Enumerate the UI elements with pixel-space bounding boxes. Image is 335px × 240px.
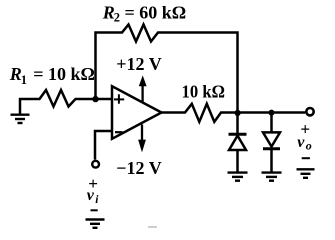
svg-text:2: 2 [114, 11, 120, 25]
svg-text:10 kΩ: 10 kΩ [182, 82, 226, 102]
svg-text:−12 V: −12 V [116, 158, 161, 178]
svg-text:v: v [297, 134, 305, 151]
svg-text:o: o [306, 139, 312, 153]
svg-text:= 10 kΩ: = 10 kΩ [33, 64, 95, 84]
svg-text:1: 1 [21, 73, 27, 87]
svg-text:v: v [87, 187, 95, 204]
svg-text:+12 V: +12 V [116, 54, 161, 74]
svg-text:i: i [95, 194, 99, 206]
svg-text:= 60 kΩ: = 60 kΩ [125, 3, 187, 23]
